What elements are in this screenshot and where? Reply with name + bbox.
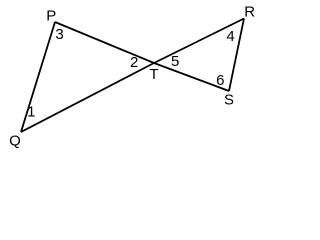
svg-text:2: 2 bbox=[130, 54, 138, 71]
svg-text:Q: Q bbox=[9, 132, 21, 149]
svg-text:5: 5 bbox=[171, 53, 179, 70]
line RS bbox=[229, 19, 244, 92]
svg-text:1: 1 bbox=[27, 104, 35, 121]
svg-text:S: S bbox=[224, 91, 234, 108]
svg-text:R: R bbox=[244, 4, 255, 21]
svg-text:6: 6 bbox=[216, 72, 224, 89]
line QTR bbox=[21, 19, 244, 133]
svg-text:3: 3 bbox=[55, 26, 63, 43]
line PTS bbox=[55, 22, 229, 91]
line PQ bbox=[21, 22, 55, 132]
svg-text:T: T bbox=[149, 66, 158, 83]
svg-text:P: P bbox=[46, 7, 56, 24]
svg-text:4: 4 bbox=[226, 28, 234, 45]
